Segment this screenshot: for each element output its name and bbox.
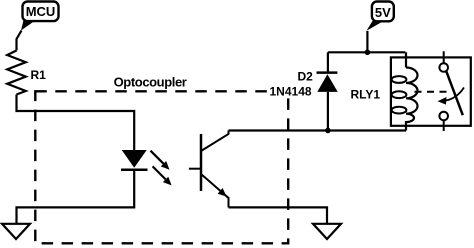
wire R1 to LED anode bbox=[17, 95, 135, 151]
label RLY1 bbox=[351, 88, 381, 102]
wire emitter to right ground bbox=[229, 207, 328, 223]
relay coil top lead bbox=[405, 52, 407, 67]
net flag 5V bbox=[367, 2, 394, 31]
svg-text:1N4148: 1N4148 bbox=[270, 85, 312, 99]
light arrow 2 bbox=[153, 166, 172, 185]
relay dashed link bbox=[415, 91, 449, 93]
wire 5V to top rail bbox=[366, 31, 368, 52]
relay RLY1 bbox=[391, 51, 471, 131]
wire LED cathode to left ground bbox=[17, 170, 135, 224]
relay box bbox=[391, 57, 471, 125]
wire collector to node bbox=[229, 129, 328, 131]
svg-text:MCU: MCU bbox=[26, 4, 56, 19]
optocoupler dashed box bbox=[35, 91, 288, 243]
label R1 bbox=[31, 68, 47, 82]
relay switch arrow bbox=[444, 88, 464, 101]
wire top rail to D2 cathode bbox=[327, 52, 329, 72]
svg-text:5V: 5V bbox=[375, 5, 391, 20]
wire D2 anode to node bbox=[327, 92, 329, 131]
wire MCU to R1 bbox=[17, 31, 22, 51]
relay coil bbox=[406, 68, 418, 131]
junction dot at 5V node bbox=[365, 50, 371, 56]
diode D2 bbox=[317, 73, 338, 92]
wire top rail bbox=[328, 51, 406, 53]
ground (right) bbox=[313, 224, 341, 239]
svg-text:Optocoupler: Optocoupler bbox=[114, 74, 187, 89]
junction dot at node bbox=[325, 128, 331, 134]
svg-text:R1: R1 bbox=[31, 68, 47, 82]
svg-text:RLY1: RLY1 bbox=[351, 88, 381, 102]
label 1N4148 bbox=[268, 85, 315, 99]
label Optocoupler bbox=[114, 74, 187, 89]
ground (left) bbox=[2, 224, 30, 239]
relay switch common pin bbox=[443, 51, 445, 63]
label D2 bbox=[298, 70, 314, 84]
light arrow 1 bbox=[151, 151, 170, 170]
wire node to relay coil bottom bbox=[328, 129, 406, 131]
LED of optocoupler bbox=[121, 150, 148, 170]
phototransistor of optocoupler bbox=[189, 131, 229, 208]
relay switch blade bbox=[446, 71, 463, 115]
relay switch NO pin bbox=[439, 112, 448, 121]
resistor R1 bbox=[7, 51, 26, 95]
net flag MCU bbox=[21, 2, 59, 31]
svg-text:D2: D2 bbox=[298, 70, 314, 84]
